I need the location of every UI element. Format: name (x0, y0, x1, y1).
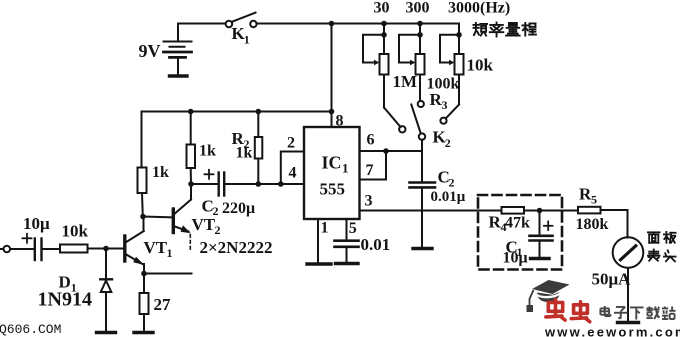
op-amp U1: IC1 555 timer (304, 127, 360, 219)
svg-text:4: 4 (289, 165, 297, 182)
svg-text:1k: 1k (199, 143, 216, 160)
label R5 (579, 185, 597, 207)
wire K1 to top-right rail (257, 23, 459, 25)
potentiometer 100k (399, 21, 425, 101)
label C2 (220u) (202, 197, 219, 219)
panel meter M 50uA (613, 237, 644, 268)
svg-text:3: 3 (365, 193, 373, 210)
ground (pin5 cap) (336, 262, 359, 265)
svg-text:1: 1 (244, 33, 250, 47)
svg-text:0.01: 0.01 (361, 235, 391, 254)
wire to 27 (143, 274, 145, 294)
label R3 (430, 90, 448, 112)
ground (27) (134, 331, 153, 334)
svg-text:7: 7 (366, 162, 374, 179)
logo text 电子下载站 (600, 306, 675, 320)
resistor R5 180k (578, 207, 601, 214)
svg-text:2×2N2222: 2×2N2222 (200, 238, 273, 257)
potentiometer 1M (363, 21, 401, 127)
svg-text:9V: 9V (139, 41, 161, 61)
node (rail / pin8 drop) (329, 21, 335, 27)
label K2 (433, 128, 451, 151)
svg-text:10k: 10k (62, 222, 89, 241)
label C1 (506, 238, 523, 260)
svg-text:2: 2 (445, 136, 451, 150)
switch K2 contact (10k) (440, 118, 446, 124)
switch K2 contact (100k) R3 (418, 101, 424, 107)
resistor 27 (140, 293, 149, 314)
wire battery to K1 (178, 23, 226, 25)
wire R5 to meter (601, 210, 628, 238)
transistor VT1 (125, 217, 145, 274)
capacitor C2 220u (191, 173, 304, 196)
label 表头 (648, 250, 676, 262)
wire pin3 output (360, 210, 502, 212)
capacitor C2 0.01u (410, 151, 436, 248)
label VT2 (192, 215, 221, 237)
ground (battery) (170, 74, 188, 77)
switch K2 pole and lever (411, 105, 425, 152)
node (D1 junction) (103, 246, 109, 252)
svg-text:47k: 47k (505, 215, 530, 232)
node (bus/1k VT2) (188, 109, 194, 115)
diode D1 1N914 (100, 249, 112, 333)
svg-text:50μA: 50μA (592, 270, 632, 289)
wire pin2 branch (281, 152, 304, 185)
svg-text:2: 2 (215, 223, 221, 237)
label R4 47k (489, 213, 531, 235)
svg-text:300: 300 (406, 0, 430, 17)
svg-text:5: 5 (591, 193, 597, 207)
svg-text:2: 2 (449, 176, 455, 190)
svg-text:1k: 1k (152, 164, 169, 181)
svg-text:555: 555 (320, 180, 346, 199)
resistor 1k (VT1 collector) (138, 168, 147, 217)
resistor R2 1k (255, 112, 262, 185)
label VT1 (144, 238, 173, 260)
svg-text:IC: IC (322, 153, 342, 173)
node (pin6/pin7) (383, 148, 389, 154)
svg-text:10μ: 10μ (503, 250, 528, 267)
wire emitter bus (144, 273, 192, 275)
wire pin6 to K2 node (360, 150, 423, 152)
resistor 10k (input) (60, 245, 88, 253)
wire pin1 to ground (317, 219, 319, 264)
plus sign (C1) (544, 222, 553, 231)
input terminal (4, 246, 11, 253)
capacitor 0.01 (pin5) (335, 219, 359, 263)
wire to VT2 base (143, 216, 172, 219)
dashed box (filter network) (478, 195, 562, 270)
svg-text:1: 1 (321, 220, 329, 237)
svg-text:180k: 180k (576, 216, 609, 233)
node (C2/R2) (255, 181, 261, 187)
svg-text:VT: VT (144, 238, 168, 257)
svg-text:0.01μ: 0.01μ (431, 189, 466, 205)
label 频率量程 (473, 23, 535, 37)
node (VT1 collector / VT2 base) (140, 214, 146, 220)
wire (left edge stub) (0, 248, 3, 250)
node (R4/C1) (537, 208, 543, 214)
svg-text:6: 6 (367, 132, 375, 149)
capacitor C1 10u (530, 211, 553, 259)
node (bus/R2) (255, 109, 261, 115)
svg-text:30: 30 (374, 0, 390, 17)
resistor R4 47k (502, 207, 525, 214)
label K1 (232, 24, 250, 47)
svg-text:5: 5 (349, 220, 357, 237)
wire +V bus (142, 111, 332, 113)
svg-text:27: 27 (154, 295, 172, 314)
ground (D1) (97, 331, 116, 334)
ground (C2 0.01u) (413, 247, 432, 250)
node (VT1 emitter) (141, 271, 147, 277)
svg-text:1: 1 (167, 246, 173, 260)
wire vertical to +V bus (331, 24, 333, 112)
plus sign (C2 220u) (205, 170, 214, 179)
node (pin2 branch) (278, 181, 284, 187)
svg-text:1N914: 1N914 (38, 289, 92, 311)
resistor 1k (VT2 collector) (187, 112, 196, 185)
wire 27 to ground (143, 314, 145, 332)
label D1 (59, 273, 77, 295)
svg-text:10μ: 10μ (23, 214, 50, 233)
capacitor C-in 10u (35, 239, 42, 261)
svg-text:3: 3 (442, 98, 448, 112)
plus sign (C-in) (23, 234, 32, 243)
transistor VT2 (173, 184, 191, 251)
wire 10k to VT1 base (88, 248, 124, 250)
ground (pin1) (307, 262, 331, 265)
wire bus corner down to 1k (141, 112, 143, 169)
ground (C1) (531, 257, 550, 260)
svg-text:1k: 1k (236, 145, 253, 162)
svg-text:10k: 10k (467, 56, 494, 75)
svg-text:1M: 1M (393, 72, 418, 91)
potentiometer 10k (440, 24, 464, 119)
logo graduation cap (527, 280, 570, 312)
switch K1 (226, 13, 257, 28)
wire meter to ground (627, 268, 629, 322)
logo 虫虫 red (546, 299, 590, 321)
wire pin7 (360, 151, 387, 180)
battery B1 9V (164, 24, 192, 76)
svg-text:2: 2 (287, 135, 295, 152)
wire R4 to R5 (524, 210, 578, 212)
ground (meter) (618, 321, 639, 324)
svg-text:3000(Hz): 3000(Hz) (448, 0, 510, 17)
label C2 (438, 168, 455, 190)
node (bus junction) (329, 109, 335, 115)
wire C-in to 10k (43, 248, 61, 250)
label 面板 (648, 232, 676, 243)
label R2 (232, 129, 250, 151)
wire input to C-in (10, 248, 33, 250)
svg-text:Q606.COM: Q606.COM (0, 322, 61, 337)
svg-text:1: 1 (342, 161, 349, 176)
svg-text:220μ: 220μ (222, 200, 255, 217)
svg-text:2: 2 (213, 204, 219, 218)
node (VT2 collector) (188, 181, 194, 187)
label IC1 (322, 153, 349, 176)
switch K2 contact (1M) (399, 126, 405, 132)
wire pin8 stub (331, 112, 333, 129)
svg-text:www.eeworm.com: www.eeworm.com (544, 325, 680, 337)
